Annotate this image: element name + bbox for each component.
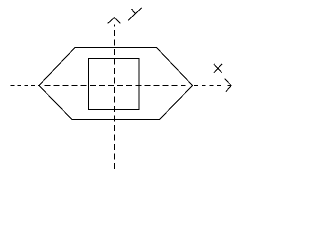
- X axis short stub at arrow tip: [228, 85, 232, 87]
- X axis dashed lead-out (short dashes to arrow): [194, 85, 221, 87]
- label Y (stroke font), long stroke: [128, 8, 141, 20]
- square: [89, 59, 140, 110]
- X axis arrowhead (open, pointing right): [225, 79, 232, 92]
- Y axis centerline (vertical dashed): [114, 25, 116, 170]
- label Y, short stroke: [132, 9, 136, 14]
- hexagon outline: [39, 48, 193, 120]
- horizontal centerline through hexagon (long dashes): [44, 85, 185, 87]
- Y axis arrowhead (open, pointing up): [108, 18, 121, 24]
- label X, stroke 1: [214, 64, 222, 73]
- X axis centerline (horizontal dashed, left of hexagon): [11, 85, 40, 87]
- label X, stroke 2: [214, 64, 222, 73]
